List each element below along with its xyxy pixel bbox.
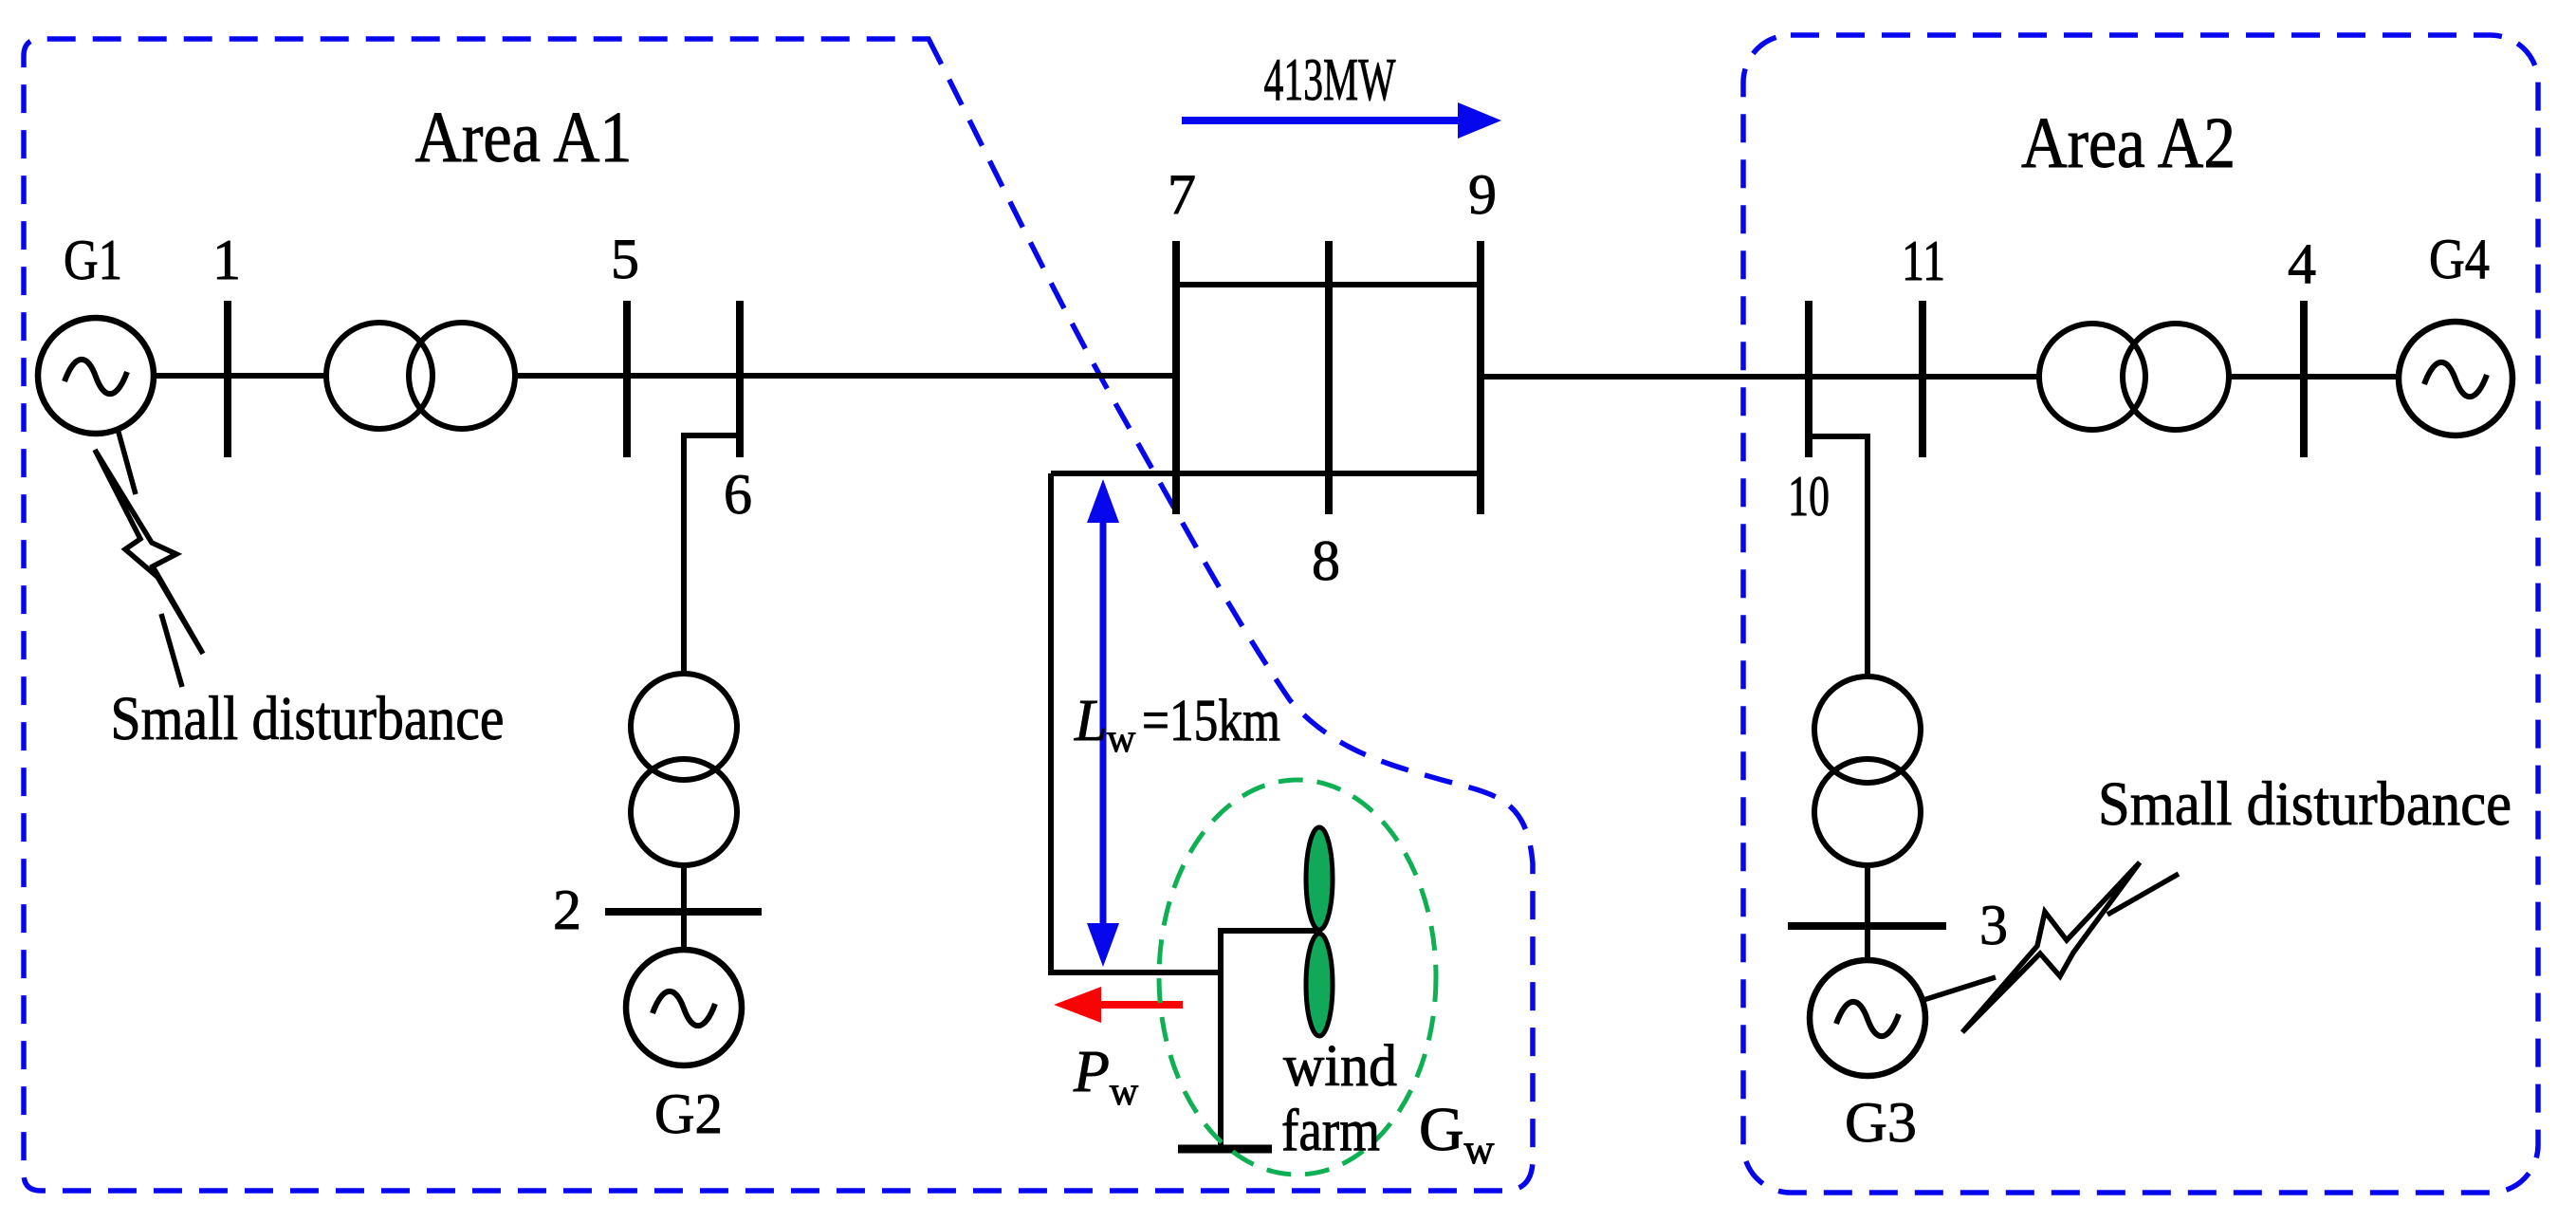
svg-text:G3: G3: [1845, 1091, 1917, 1154]
svg-text:Small disturbance: Small disturbance: [2098, 769, 2512, 839]
wind farm dashed ellipse: [1159, 780, 1436, 1175]
generator G3: [1810, 960, 1925, 1076]
svg-text:Small disturbance: Small disturbance: [111, 684, 505, 753]
wire stub bus 6: [684, 435, 740, 958]
svg-text:G4: G4: [2429, 228, 2490, 290]
svg-text:413MW: 413MW: [1264, 46, 1396, 113]
svg-text:11: 11: [1902, 230, 1945, 292]
transformer T2 (bus6-bus2): [631, 674, 737, 865]
power flow arrow 413MW: [1182, 102, 1501, 139]
svg-text:w: w: [1107, 717, 1136, 761]
bus 8: [1325, 241, 1333, 514]
transformer T3 (bus11-bus4): [2039, 324, 2229, 430]
bus 10: [1805, 301, 1812, 457]
svg-text:5: 5: [611, 228, 639, 290]
bus 1: [224, 301, 231, 457]
wire stub bus 10: [1809, 436, 1868, 683]
area A2 dashed boundary: [1743, 35, 2538, 1193]
svg-text:Pw: Pw: [1073, 1040, 1139, 1114]
dimension arrow Lw (double headed): [1087, 479, 1119, 967]
svg-text:Gw: Gw: [1419, 1095, 1495, 1173]
svg-text:G2: G2: [654, 1083, 723, 1145]
svg-text:9: 9: [1468, 163, 1497, 226]
svg-text:Area A1: Area A1: [415, 98, 633, 177]
lightning bolt left (small disturbance at G1): [95, 429, 203, 687]
svg-text:7: 7: [1168, 163, 1196, 226]
svg-text:3: 3: [1979, 894, 2008, 956]
bus 6: [736, 301, 744, 457]
bus 9: [1477, 241, 1484, 514]
transformer T4 (bus10-bus3): [1814, 676, 1921, 865]
red arrow Pw: [1054, 987, 1183, 1023]
svg-text:2: 2: [553, 879, 581, 941]
area A1 dashed boundary: [24, 39, 1533, 1191]
wire wind turbine mast: [1221, 931, 1316, 1149]
wire G2 branch lower: [681, 854, 687, 958]
bus 2: [605, 908, 762, 916]
generator G4: [2399, 322, 2512, 435]
svg-text:10: 10: [1788, 465, 1830, 528]
wire circuit line 7-9 bottom: [1051, 471, 1481, 476]
wind turbine blade upper: [1306, 827, 1333, 930]
bus 5: [623, 301, 631, 457]
bus 11: [1919, 301, 1926, 457]
wind turbine blade lower: [1306, 934, 1333, 1036]
svg-text:wind: wind: [1283, 1034, 1397, 1099]
generator G1: [38, 318, 154, 434]
wire circuit line 7-9 top: [1176, 282, 1481, 287]
svg-text:4: 4: [2288, 232, 2316, 295]
bus 7: [1172, 241, 1180, 514]
svg-text:1: 1: [212, 229, 241, 291]
svg-text:6: 6: [724, 463, 752, 526]
wire main line left: G1 to bus 7: [96, 373, 1176, 379]
bus 4: [2300, 301, 2308, 457]
svg-text:L: L: [1074, 689, 1107, 753]
svg-text:8: 8: [1312, 529, 1340, 592]
svg-text:G1: G1: [64, 229, 122, 291]
wire G3 branch lower: [1865, 854, 1870, 968]
bus 3: [1788, 922, 1946, 930]
generator G2: [626, 950, 742, 1065]
svg-text:Area A2: Area A2: [2021, 103, 2236, 183]
svg-text:farm: farm: [1281, 1099, 1380, 1163]
svg-text:=15km: =15km: [1142, 689, 1280, 753]
lightning bolt right (small disturbance at G3): [1923, 862, 2179, 1032]
transformer T1 (bus1-bus5): [326, 323, 515, 429]
wire main line right: bus 9 to G4: [1481, 374, 2456, 380]
wire wind farm feeder: [1051, 473, 1221, 972]
ground bar wind farm: [1178, 1145, 1272, 1154]
